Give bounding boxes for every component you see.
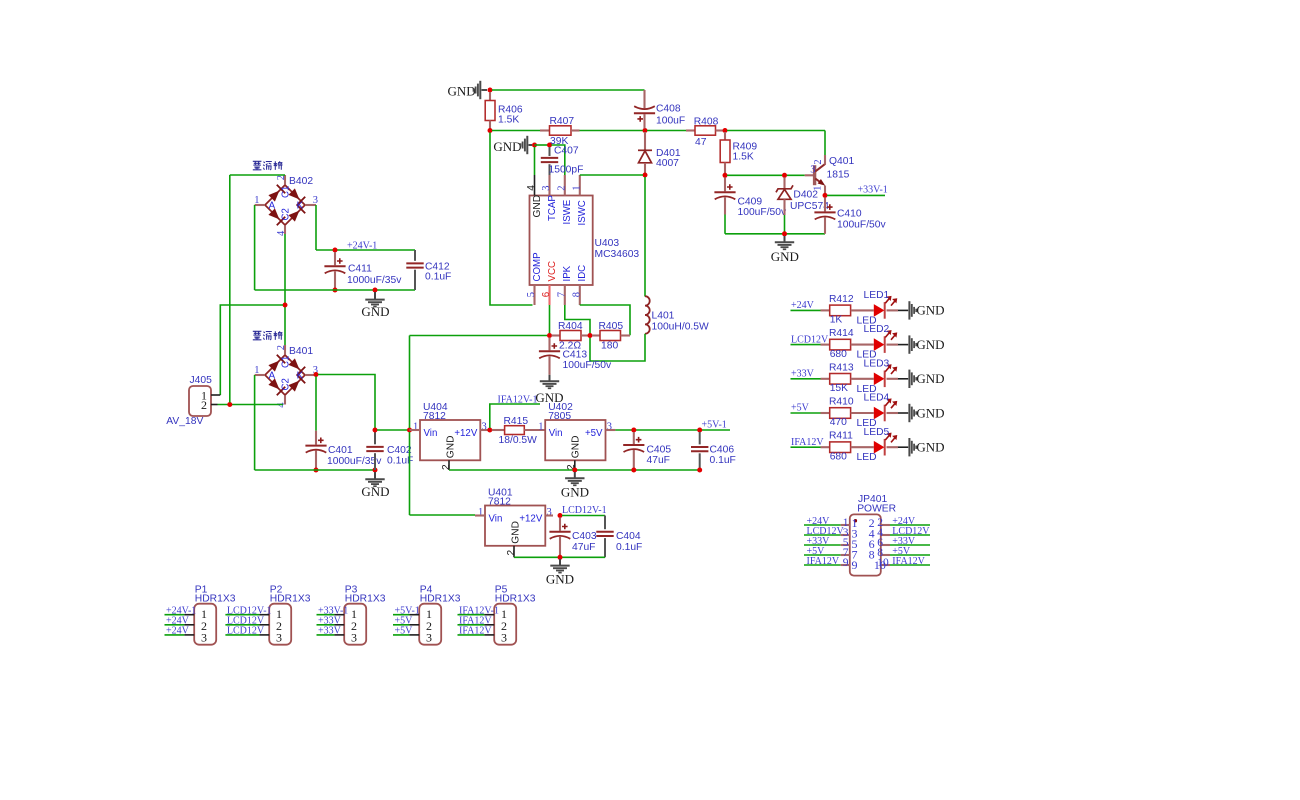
node/junction bbox=[487, 428, 492, 433]
ground GND (below C411 rail) bbox=[374, 292, 376, 300]
svg-text:HDR1X3: HDR1X3 bbox=[270, 594, 311, 605]
wire bbox=[644, 177, 646, 296]
wire bbox=[514, 556, 605, 558]
svg-text:+24V: +24V bbox=[166, 626, 190, 637]
node/junction bbox=[588, 333, 593, 338]
svg-text:IDC: IDC bbox=[577, 265, 588, 282]
pin 1 marker dot of JP401 bbox=[854, 519, 857, 522]
wire bbox=[724, 215, 726, 234]
svg-text:1: 1 bbox=[254, 195, 259, 206]
svg-text:7812: 7812 bbox=[423, 411, 446, 422]
node/junction bbox=[558, 555, 563, 560]
node/junction bbox=[333, 248, 338, 253]
pin 4 of B401 bbox=[284, 395, 286, 404]
op-amp U403 MC34603 (switching regulator IC) bbox=[530, 196, 593, 286]
svg-text:GND: GND bbox=[532, 195, 543, 218]
node/junction bbox=[373, 468, 378, 473]
label rectifier-bridge (Chinese) for B401 bbox=[253, 331, 283, 340]
connector P4 HDR1X3 bbox=[419, 604, 441, 645]
ground GND (below C403/C404) bbox=[559, 559, 561, 566]
net LCD12V wire (LED row) bbox=[791, 344, 821, 346]
resistor R404 2.2ohm bbox=[552, 334, 561, 336]
pin 6 VCC bbox=[548, 285, 550, 305]
svg-text:J405: J405 bbox=[190, 375, 213, 386]
wire bbox=[229, 175, 231, 403]
pin 7 IPK bbox=[564, 285, 566, 305]
svg-text:B402: B402 bbox=[289, 176, 313, 187]
svg-text:9: 9 bbox=[843, 557, 849, 569]
svg-text:ISWC: ISWC bbox=[577, 200, 588, 225]
wire bbox=[409, 432, 411, 515]
resistor R410 470 bbox=[821, 412, 830, 414]
node/junction bbox=[723, 173, 728, 178]
wire bbox=[482, 89, 488, 91]
svg-text:3: 3 bbox=[313, 195, 318, 206]
svg-text:GND: GND bbox=[916, 337, 944, 352]
pin 2 of U401 bbox=[513, 546, 515, 558]
wire bbox=[887, 412, 899, 414]
net +5V-1 wire bbox=[615, 429, 730, 431]
P4 pin 1 net +5V-1 bbox=[393, 614, 409, 616]
svg-text:POWER: POWER bbox=[857, 503, 896, 514]
JP401 pin 5 (left) net +33V bbox=[804, 544, 841, 546]
pin 2 of B402 bbox=[284, 175, 286, 185]
svg-text:+33V: +33V bbox=[318, 626, 342, 637]
wire bbox=[580, 130, 644, 132]
node/junction bbox=[314, 468, 319, 473]
JP401 pin 10 (right) net IFA12V bbox=[881, 564, 890, 566]
svg-text:6: 6 bbox=[541, 292, 552, 297]
ground GND (below U402 rail) bbox=[574, 472, 576, 478]
pin 4 GND bbox=[534, 175, 536, 196]
svg-text:15K: 15K bbox=[830, 383, 848, 394]
ground GND (below C401/C402 rail) bbox=[374, 472, 376, 479]
svg-text:R413: R413 bbox=[829, 362, 854, 373]
svg-text:C402: C402 bbox=[387, 445, 412, 456]
svg-text:HDR1X3: HDR1X3 bbox=[195, 594, 236, 605]
svg-text:GND: GND bbox=[445, 436, 456, 459]
resistor R408 bbox=[686, 129, 695, 131]
svg-text:10: 10 bbox=[874, 558, 886, 572]
svg-text:A: A bbox=[269, 200, 276, 211]
LED LED1 bbox=[874, 304, 885, 317]
svg-text:Q401: Q401 bbox=[829, 156, 854, 167]
wire bbox=[552, 145, 565, 175]
svg-text:3: 3 bbox=[276, 631, 282, 645]
pin 1 of U404 bbox=[410, 429, 421, 431]
P5 pin 3 net IFA12V bbox=[458, 634, 485, 636]
node/junction bbox=[631, 468, 636, 473]
svg-text:GND: GND bbox=[771, 249, 799, 264]
wire bbox=[534, 147, 536, 175]
pin 3 of B402 bbox=[305, 204, 316, 206]
svg-text:8: 8 bbox=[571, 292, 582, 297]
svg-text:3: 3 bbox=[201, 631, 207, 645]
capacitor C409 100uF/50v bbox=[724, 177, 726, 191]
svg-text:TCAP: TCAP bbox=[547, 195, 558, 221]
pin 2 ISWE bbox=[564, 175, 566, 196]
svg-text:7805: 7805 bbox=[548, 411, 571, 422]
pin 3 of U404 bbox=[480, 429, 488, 431]
svg-text:7: 7 bbox=[556, 292, 567, 297]
bridge rectifier B401 bbox=[265, 355, 305, 395]
pin 2 of J405 bbox=[211, 404, 218, 406]
JP401 pin 6 (right) net +33V bbox=[881, 544, 890, 546]
svg-text:IFA12V: IFA12V bbox=[807, 556, 840, 567]
resistor R414 680 bbox=[821, 344, 830, 346]
pin 1 of B402 bbox=[255, 204, 265, 206]
svg-text:0.1uF: 0.1uF bbox=[710, 455, 736, 466]
wire bbox=[315, 377, 317, 431]
wire bbox=[887, 309, 899, 311]
pin 5 COMP bbox=[533, 285, 535, 305]
svg-text:1.5K: 1.5K bbox=[498, 114, 519, 125]
JP401 pin 9 (left) net IFA12V bbox=[804, 564, 841, 566]
svg-text:7812: 7812 bbox=[488, 497, 511, 508]
wire bbox=[529, 144, 533, 146]
capacitor C413 100uF/50v bbox=[548, 338, 550, 351]
svg-text:ISWE: ISWE bbox=[562, 199, 573, 224]
P2 pin 3 net LCD12V bbox=[225, 634, 259, 636]
svg-text:IPK: IPK bbox=[562, 265, 573, 281]
capacitor C410 100uF/50v bbox=[824, 197, 826, 211]
connector P5 HDR1X3 bbox=[494, 604, 516, 645]
diode D402 UPC574 (zener) bbox=[783, 177, 785, 188]
svg-text:GND: GND bbox=[916, 440, 944, 455]
svg-text:3: 3 bbox=[426, 631, 432, 645]
wire bbox=[725, 233, 825, 235]
net IFA12V-1 bbox=[490, 404, 540, 428]
wire bbox=[824, 131, 826, 156]
svg-text:GND: GND bbox=[546, 572, 574, 587]
node/junction bbox=[631, 428, 636, 433]
wire bbox=[218, 404, 284, 406]
node/junction bbox=[697, 468, 702, 473]
node/junction bbox=[697, 428, 702, 433]
svg-text:L401: L401 bbox=[652, 311, 675, 322]
wire bbox=[580, 305, 630, 335]
node/junction bbox=[488, 128, 493, 133]
svg-text:47uF: 47uF bbox=[572, 542, 595, 553]
node/junction bbox=[314, 372, 319, 377]
svg-text:R405: R405 bbox=[599, 321, 624, 332]
wire bbox=[254, 375, 256, 470]
svg-text:18/0.5W: 18/0.5W bbox=[499, 435, 538, 446]
net IFA12V wire (LED row) bbox=[791, 446, 821, 448]
svg-text:0.1uF: 0.1uF bbox=[616, 542, 642, 553]
svg-text:GND: GND bbox=[916, 405, 944, 420]
pin 8 IDC bbox=[579, 285, 581, 305]
node/junction bbox=[407, 428, 412, 433]
node/junction bbox=[643, 173, 648, 178]
capacitor C403 47uF bbox=[559, 518, 561, 531]
JP401 pin 2 (right) net +24V bbox=[881, 524, 890, 526]
svg-text:LED4: LED4 bbox=[864, 393, 890, 404]
capacitor C407 1500pF bbox=[549, 147, 551, 156]
svg-text:2: 2 bbox=[506, 550, 517, 556]
bridge rectifier B402 bbox=[265, 185, 305, 225]
svg-text:MC34603: MC34603 bbox=[595, 249, 640, 260]
wire bbox=[580, 174, 643, 176]
LED LED3 bbox=[874, 373, 885, 386]
svg-text:100uF/50v: 100uF/50v bbox=[563, 360, 613, 371]
wire bbox=[318, 375, 375, 429]
capacitor C405 47uF bbox=[633, 432, 635, 444]
svg-text:1000uF/35v: 1000uF/35v bbox=[327, 456, 382, 467]
svg-text:+24V: +24V bbox=[791, 300, 815, 311]
svg-text:Vin: Vin bbox=[549, 428, 563, 439]
LED LED2 bbox=[874, 338, 885, 351]
pin 1 of U401 bbox=[475, 514, 485, 516]
svg-text:K: K bbox=[297, 200, 304, 211]
svg-text:+5V: +5V bbox=[791, 403, 810, 414]
P3 pin 2 net +33V bbox=[317, 624, 335, 626]
svg-text:COMP: COMP bbox=[532, 252, 543, 281]
pin 1 ISWC bbox=[579, 175, 581, 196]
P2 pin 2 net LCD12V bbox=[225, 624, 259, 626]
svg-text:2: 2 bbox=[441, 464, 452, 470]
svg-text:+33V: +33V bbox=[791, 369, 815, 380]
svg-text:C408: C408 bbox=[656, 104, 681, 115]
pin 1 of B401 bbox=[255, 374, 265, 376]
wire bbox=[784, 215, 786, 232]
svg-text:100uF/50v: 100uF/50v bbox=[837, 219, 887, 230]
svg-text:GND: GND bbox=[916, 371, 944, 386]
svg-text:47: 47 bbox=[695, 137, 707, 148]
voltage regulator U404 7812 bbox=[420, 420, 480, 460]
resistor R412 1K bbox=[821, 309, 830, 311]
capacitor C402 0.1uF bbox=[374, 430, 376, 444]
connector P1 HDR1X3 bbox=[194, 604, 216, 645]
LED LED4 bbox=[874, 407, 885, 420]
node/junction bbox=[547, 333, 552, 338]
svg-text:1815: 1815 bbox=[827, 170, 850, 181]
net +24V wire (LED row) bbox=[791, 309, 821, 311]
net LCD12V-1 wire bbox=[562, 515, 605, 517]
svg-text:R415: R415 bbox=[504, 416, 529, 427]
JP401 pin 7 (left) net +5V bbox=[804, 554, 841, 556]
net +24V-1 wire bbox=[316, 249, 415, 251]
capacitor C404 0.1uF bbox=[604, 516, 606, 530]
svg-text:R407: R407 bbox=[550, 116, 575, 127]
svg-text:GND: GND bbox=[448, 83, 476, 98]
pin 2 of U404 bbox=[448, 460, 450, 470]
svg-text:LED5: LED5 bbox=[864, 427, 890, 438]
pin 3 of U402 bbox=[606, 429, 616, 431]
wire bbox=[887, 378, 899, 380]
svg-text:IFA12V: IFA12V bbox=[791, 437, 824, 448]
node/junction bbox=[488, 88, 493, 93]
svg-text:R410: R410 bbox=[829, 397, 854, 408]
svg-text:3: 3 bbox=[351, 631, 357, 645]
svg-text:D402: D402 bbox=[793, 190, 818, 201]
svg-text:3: 3 bbox=[541, 185, 552, 190]
svg-text:R412: R412 bbox=[829, 294, 854, 305]
P4 pin 2 net +5V bbox=[393, 624, 409, 626]
wire bbox=[410, 335, 548, 337]
power ground GND (LED4 row) bbox=[909, 404, 916, 422]
JP401 pin 1 (left) net +24V bbox=[804, 524, 841, 526]
svg-text:R408: R408 bbox=[694, 116, 719, 127]
pin 2 of U402 bbox=[574, 460, 576, 468]
svg-text:UPC574: UPC574 bbox=[790, 201, 829, 212]
connector J405 bbox=[189, 386, 211, 416]
pin 3 TCAP bbox=[548, 175, 550, 196]
svg-text:5: 5 bbox=[526, 292, 537, 297]
svg-text:VCC: VCC bbox=[547, 261, 558, 281]
svg-text:IFA12V: IFA12V bbox=[892, 556, 925, 567]
ground GND (below C409/C410 rail) bbox=[784, 236, 786, 242]
node/junction bbox=[643, 128, 648, 133]
svg-text:R414: R414 bbox=[829, 328, 854, 339]
svg-text:+33V-1: +33V-1 bbox=[858, 184, 888, 195]
wire bbox=[492, 89, 645, 91]
node/junction bbox=[782, 231, 787, 236]
svg-text:2: 2 bbox=[276, 175, 287, 180]
svg-text:GND: GND bbox=[493, 139, 521, 154]
JP401 pin 8 (right) net +5V bbox=[881, 554, 890, 556]
node/junction bbox=[723, 128, 728, 133]
JP401 pin 4 (right) net LCD12V bbox=[881, 534, 890, 536]
resistor R411 680 bbox=[821, 446, 830, 448]
svg-text:180: 180 bbox=[601, 341, 618, 352]
P3 pin 3 net +33V bbox=[317, 634, 335, 636]
svg-text:100uH/0.5W: 100uH/0.5W bbox=[652, 322, 710, 333]
svg-text:AV_18V: AV_18V bbox=[166, 416, 203, 427]
svg-text:3: 3 bbox=[501, 631, 507, 645]
svg-text:680: 680 bbox=[830, 451, 847, 462]
resistor R405 180 bbox=[592, 334, 600, 336]
svg-text:1: 1 bbox=[571, 185, 582, 190]
svg-text:Vin: Vin bbox=[489, 514, 503, 525]
wire bbox=[255, 469, 375, 471]
wire bbox=[727, 174, 805, 176]
voltage regulator U402 7805 bbox=[545, 420, 605, 460]
svg-text:HDR1X3: HDR1X3 bbox=[345, 594, 386, 605]
resistor R406 bbox=[489, 92, 491, 101]
label rectifier-bridge (Chinese) for B402 bbox=[253, 161, 283, 170]
node/junction bbox=[782, 173, 787, 178]
svg-text:LED3: LED3 bbox=[864, 358, 890, 369]
svg-text:2: 2 bbox=[201, 398, 207, 412]
resistor R415 18/0.5W bbox=[492, 429, 505, 431]
svg-text:4007: 4007 bbox=[656, 158, 679, 169]
node/junction bbox=[823, 193, 828, 198]
svg-text:GND: GND bbox=[916, 303, 944, 318]
diode D401 4007 bbox=[644, 132, 646, 150]
svg-text:HDR1X3: HDR1X3 bbox=[495, 594, 536, 605]
P1 pin 3 net +24V bbox=[165, 634, 185, 636]
wire bbox=[255, 289, 415, 291]
svg-text:LCD12V-1: LCD12V-1 bbox=[562, 505, 607, 516]
pin 4 of B402 bbox=[284, 225, 286, 234]
svg-text:1K: 1K bbox=[830, 315, 843, 326]
wire bbox=[409, 336, 411, 429]
P1 pin 1 net +24V-1 bbox=[165, 614, 185, 616]
svg-text:C401: C401 bbox=[328, 445, 353, 456]
svg-text:C410: C410 bbox=[837, 208, 862, 219]
ground GND (below C413) bbox=[549, 375, 551, 382]
wire bbox=[230, 174, 285, 176]
wire bbox=[590, 334, 645, 361]
svg-text:LCD12V: LCD12V bbox=[227, 626, 265, 637]
svg-text:C406: C406 bbox=[710, 444, 735, 455]
wire bbox=[449, 469, 700, 471]
net +33V-1 bbox=[827, 194, 885, 196]
node/junction bbox=[373, 428, 378, 433]
wire bbox=[492, 130, 540, 132]
svg-text:C411: C411 bbox=[348, 264, 372, 275]
wire bbox=[549, 305, 551, 334]
power ground GND (LED5 row) bbox=[909, 438, 916, 456]
svg-text:2: 2 bbox=[276, 345, 287, 350]
capacitor C412 0.1uF bbox=[414, 250, 416, 261]
svg-text:3: 3 bbox=[810, 165, 815, 176]
svg-text:Vin: Vin bbox=[424, 428, 438, 439]
node/junction bbox=[558, 513, 563, 518]
JP401 pin 3 (left) net LCD12V bbox=[804, 534, 841, 536]
svg-text:HDR1X3: HDR1X3 bbox=[420, 594, 461, 605]
svg-text:C403: C403 bbox=[572, 531, 597, 542]
svg-text:GND: GND bbox=[510, 521, 521, 544]
node/junction bbox=[283, 303, 288, 308]
wire bbox=[284, 234, 286, 345]
svg-text:GND: GND bbox=[361, 304, 389, 319]
svg-text:1: 1 bbox=[254, 365, 259, 376]
svg-text:GND: GND bbox=[561, 484, 589, 499]
svg-text:4: 4 bbox=[526, 185, 537, 191]
svg-text:IFA12V-1: IFA12V-1 bbox=[498, 394, 538, 405]
svg-text:2: 2 bbox=[556, 185, 567, 190]
wire bbox=[490, 133, 533, 306]
P3 pin 1 net +33V-1 bbox=[317, 614, 335, 616]
wire bbox=[220, 305, 283, 395]
power ground GND (LED2 row) bbox=[909, 335, 916, 353]
resistor R407 bbox=[540, 129, 550, 131]
svg-text:U403: U403 bbox=[595, 238, 620, 249]
power ground GND (LED3 row) bbox=[909, 370, 916, 388]
svg-text:R404: R404 bbox=[558, 321, 583, 332]
svg-text:100uF/50v: 100uF/50v bbox=[738, 207, 788, 218]
wire bbox=[535, 144, 550, 146]
svg-text:680: 680 bbox=[830, 349, 847, 360]
net +33V wire (LED row) bbox=[791, 378, 821, 380]
svg-text:C1: C1 bbox=[280, 356, 291, 368]
wire bbox=[377, 429, 408, 431]
svg-text:1: 1 bbox=[538, 421, 543, 432]
wire bbox=[254, 205, 256, 290]
svg-text:C404: C404 bbox=[616, 531, 641, 542]
resistor R409 1.5K bbox=[724, 132, 726, 140]
svg-text:+5V: +5V bbox=[395, 626, 414, 637]
svg-text:LED: LED bbox=[857, 452, 877, 463]
pin 3 of U401 bbox=[545, 514, 553, 516]
wire bbox=[887, 446, 899, 448]
pin 3 of B401 bbox=[305, 374, 314, 376]
svg-text:B401: B401 bbox=[289, 346, 313, 357]
connector P3 HDR1X3 bbox=[344, 604, 366, 645]
svg-text:C2: C2 bbox=[280, 378, 291, 390]
capacitor C406 0.1uF bbox=[699, 432, 701, 444]
net +5V wire (LED row) bbox=[791, 412, 821, 414]
node/junction bbox=[532, 143, 537, 148]
P5 pin 2 net IFA12V bbox=[458, 624, 485, 626]
wire bbox=[565, 305, 590, 334]
svg-text:GND: GND bbox=[361, 484, 389, 499]
inductor L401 100uH/0.5W bbox=[644, 295, 646, 298]
wire bbox=[315, 205, 317, 250]
wire bbox=[410, 514, 476, 516]
